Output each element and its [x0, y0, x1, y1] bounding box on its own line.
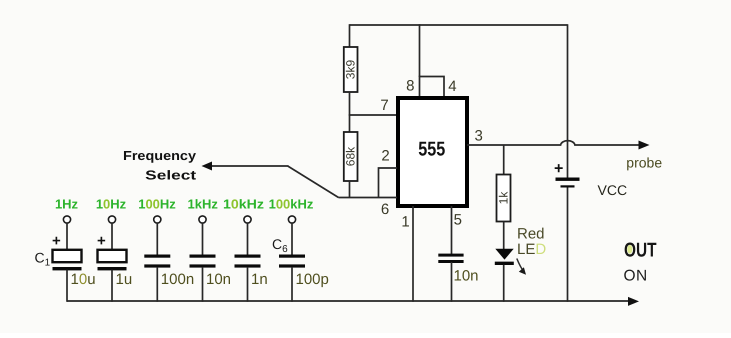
capacitor C1 10u electrolytic — [52, 233, 82, 271]
svg-text:4: 4 — [448, 78, 456, 95]
svg-text:100n: 100n — [161, 271, 194, 288]
LED D1 Red — [495, 249, 514, 263]
wire C2 to rail — [111, 270, 113, 302]
svg-text:8: 8 — [406, 78, 414, 95]
wire 100kHz terminal to C6 — [291, 223, 293, 254]
wire pin 3 with hop over VCC line and probe arrow — [467, 141, 650, 150]
svg-text:1: 1 — [401, 214, 409, 231]
svg-text:1u: 1u — [116, 271, 133, 288]
wire 1kHz terminal to C4 — [202, 223, 204, 254]
ground rail with OUT arrow — [67, 297, 639, 306]
svg-text:probe: probe — [626, 155, 662, 171]
wire 10kHz terminal to C5 — [247, 223, 249, 254]
svg-text:Select: Select — [145, 168, 197, 183]
battery BT1 VCC — [554, 161, 580, 188]
svg-text:10n: 10n — [206, 271, 231, 288]
svg-text:555: 555 — [418, 139, 445, 161]
wire top rail — [350, 24, 568, 26]
resistor R1 3k9 — [344, 47, 358, 92]
wire pin 7 — [349, 114, 397, 116]
svg-text:100p: 100p — [296, 271, 329, 288]
svg-text:Red: Red — [517, 225, 545, 242]
svg-text:3: 3 — [475, 127, 483, 144]
wire VCC vertical upper — [567, 24, 569, 178]
svg-text:+: + — [554, 161, 563, 178]
wire battery to rail — [567, 188, 569, 302]
wire frequency select arrow — [202, 162, 289, 171]
svg-text:+: + — [97, 233, 106, 250]
svg-text:68k: 68k — [344, 146, 358, 166]
wire R1 top stub — [349, 24, 351, 47]
svg-text:10u: 10u — [71, 271, 96, 288]
LED indicator arrow — [517, 259, 526, 275]
svg-text:10Hz: 10Hz — [96, 197, 127, 212]
wire 1Hz terminal to C1 — [66, 223, 68, 249]
svg-text:10kHz: 10kHz — [223, 197, 265, 212]
svg-text:100kHz: 100kHz — [269, 197, 314, 212]
node terminal 100Hz — [154, 216, 161, 223]
capacitor C6 100p — [279, 255, 305, 268]
svg-text:1k: 1k — [497, 191, 511, 205]
node terminal 1Hz — [63, 216, 70, 223]
wire diagonal to frequency select — [288, 166, 339, 198]
svg-text:10n: 10n — [454, 268, 479, 285]
svg-text:LED: LED — [517, 241, 546, 258]
wire 10Hz terminal to C2 — [111, 223, 113, 249]
op-amp U1 555 IC body — [398, 98, 467, 206]
wire R2 bottom stub — [349, 181, 351, 198]
pins 8-4 notch box — [420, 77, 445, 97]
node terminal 10Hz — [108, 216, 115, 223]
resistor R3 1k — [497, 175, 511, 222]
label Red LED — [517, 225, 546, 257]
wire C7 to rail — [451, 262, 453, 302]
svg-text:+: + — [52, 233, 61, 250]
svg-text:2: 2 — [381, 148, 389, 165]
wire C5 to rail — [247, 268, 249, 302]
svg-text:1kHz: 1kHz — [188, 197, 219, 212]
label OUT — [624, 239, 657, 261]
capacitor C3 100n — [144, 255, 170, 268]
node terminal 1kHz — [199, 216, 206, 223]
svg-text:1Hz: 1Hz — [55, 197, 79, 212]
capacitor C5 1n — [235, 255, 261, 268]
resistor R2 68k — [344, 132, 358, 181]
svg-text:VCC: VCC — [598, 182, 628, 198]
svg-text:3k9: 3k9 — [344, 60, 358, 80]
wire LED to rail — [503, 265, 505, 302]
capacitor C7 10n at pin 5 — [438, 254, 478, 285]
svg-text:1n: 1n — [251, 271, 268, 288]
wire R3 to LED — [503, 222, 505, 250]
wire between R1 and R2 — [349, 92, 351, 132]
node terminal 10kHz — [244, 216, 251, 223]
wire C4 to rail — [202, 268, 204, 302]
svg-text:ON: ON — [624, 268, 648, 285]
svg-text:7: 7 — [380, 97, 388, 114]
capacitor C4 10n — [190, 255, 216, 268]
wire C6 to rail — [291, 268, 293, 302]
wire R3 top stub — [503, 145, 505, 175]
wire pin 5 leg — [451, 206, 453, 254]
svg-text:100Hz: 100Hz — [138, 197, 176, 212]
label Frequency Select — [123, 148, 197, 183]
wire C3 to rail — [156, 268, 158, 302]
svg-text:Frequency: Frequency — [123, 148, 197, 163]
wire pin 2 stub — [379, 168, 398, 198]
wire C1 to rail — [66, 270, 68, 302]
wire pin 1 leg — [412, 206, 414, 302]
wire 100Hz terminal to C3 — [156, 223, 158, 254]
svg-text:5: 5 — [454, 212, 462, 229]
wire pin 8 vertical — [419, 24, 421, 77]
svg-text:6: 6 — [381, 201, 389, 218]
capacitor C2 1u electrolytic — [97, 233, 127, 271]
wire pin 6 horizontal — [339, 197, 398, 199]
node terminal 100kHz — [288, 216, 295, 223]
